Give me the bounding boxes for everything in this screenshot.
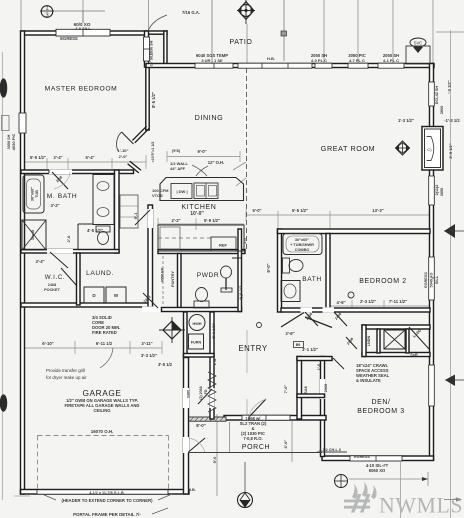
wall: front entry south: [224, 416, 326, 421]
svg-text:HWH: HWH: [192, 322, 201, 326]
north arrow: [240, 5, 252, 17]
weatherstrip zigzag on garage walls: [208, 372, 216, 412]
svg-text:3 UR - 1 SE: 3 UR - 1 SE: [201, 58, 223, 63]
wall: mbath east: [115, 170, 120, 253]
svg-text:36x48: 36x48: [31, 230, 35, 241]
wall: master SE diagonal lower: [128, 161, 141, 173]
door leaf: hall door at wic: [50, 252, 68, 268]
kitchen dim line y224: [158, 223, 244, 225]
dashed line: great room / kitchen boundary: [246, 68, 248, 252]
svg-text:- FD: - FD: [204, 389, 208, 396]
svg-text:7/16 G.A.: 7/16 G.A.: [182, 10, 200, 15]
door leaf: bath2: [305, 312, 318, 326]
svg-text:2′-2″: 2′-2″: [171, 218, 180, 223]
svg-text:DINING: DINING: [195, 113, 224, 122]
furn box: [189, 334, 204, 349]
svg-text:PWDR: PWDR: [197, 272, 220, 279]
svg-text:9′-0: 9′-0: [212, 456, 217, 464]
furnace closet south wall: [184, 354, 215, 358]
svg-text:(2) 2068: (2) 2068: [199, 386, 203, 399]
door leaf: master entry door on diagonal: [122, 132, 134, 144]
leader: portal frame note: [152, 508, 168, 514]
svg-text:=10′5″=1 1/2: =10′5″=1 1/2: [151, 142, 155, 163]
svg-text:10′-0″: 10′-0″: [190, 211, 204, 217]
bath2 toilet: [283, 258, 290, 273]
smoke detector bedroom2: [348, 292, 354, 298]
nwmls logo crossbars: [344, 500, 370, 503]
svg-text:W: W: [114, 293, 119, 298]
pwdr pedestal sink: [221, 266, 232, 278]
svg-text:Provide transfer grill: Provide transfer grill: [46, 368, 85, 373]
wall: garage east: [184, 358, 189, 495]
wall: closets south / den north: [362, 353, 430, 357]
svg-text:4-0 SILL: 4-0 SILL: [75, 26, 91, 31]
svg-text:3050: 3050: [440, 188, 444, 196]
svg-text:GREAT ROOM: GREAT ROOM: [321, 144, 375, 153]
window: 3050 PIC: [348, 63, 368, 68]
svg-text:3′-5 1/2: 3′-5 1/2: [158, 362, 173, 367]
svg-text:C): C): [427, 147, 432, 152]
svg-text:3′-3 1/2″: 3′-3 1/2″: [141, 353, 157, 358]
window: 2050 SH right: [378, 63, 404, 68]
leader half wall note: [192, 165, 207, 176]
door leaf: master bath door 2/68: [52, 172, 68, 189]
window: patio door 12ft: [238, 63, 312, 68]
svg-text:5′-8 1/2″: 5′-8 1/2″: [211, 323, 216, 338]
section marker garage: [163, 321, 181, 339]
corridor angled wall east: [305, 317, 332, 328]
top extension line x83: [82, 0, 84, 23]
window: den east: [429, 365, 435, 406]
door opening bath2: [301, 307, 313, 312]
svg-text:1′-10″: 1′-10″: [118, 148, 129, 153]
wall: main north (patio side): [146, 64, 434, 68]
kitchen island half wall: [160, 178, 244, 201]
window: 5040 XO egress bedroom2: [429, 257, 435, 300]
garage dim line y348: [21, 347, 162, 349]
svg-text:6060 XO: 6060 XO: [369, 468, 386, 473]
left margin line: [2, 52, 4, 500]
svg-text:5′-4″: 5′-4″: [85, 155, 94, 160]
door leaf: laundry door: [135, 210, 150, 225]
svg-text:6′-0″: 6′-0″: [283, 440, 288, 449]
svg-text:PANTRY: PANTRY: [170, 271, 175, 287]
svg-text:2′n″: 2′n″: [243, 236, 247, 243]
door leaf: entry-garage door: [198, 389, 212, 404]
svg-text:REF: REF: [219, 243, 228, 248]
kitchen REF box: [211, 237, 236, 251]
porch dim x292: [291, 421, 293, 462]
svg-text:DEN/: DEN/: [371, 399, 390, 406]
svg-text:2′-6″: 2′-6″: [285, 331, 294, 336]
svg-text:POCKET: POCKET: [44, 288, 61, 292]
bottom extension x400: [400, 462, 402, 518]
svg-text:44″ AFF: 44″ AFF: [170, 166, 186, 171]
top extension line x393: [392, 0, 394, 64]
window: 3050 east below fireplace: [429, 176, 435, 205]
small arrow right of watermark: [444, 499, 460, 501]
svg-text:& INSULATE: & INSULATE: [356, 378, 381, 383]
smoke detector hall: [257, 323, 262, 328]
half-wall leader marks near dashed line: [233, 162, 246, 170]
svg-text:16070 O.H.: 16070 O.H.: [91, 429, 113, 434]
leader: header note right: [158, 494, 172, 500]
porch edge line: [188, 452, 322, 454]
leader: header note left: [42, 494, 56, 500]
door leaf: hall lower: [333, 358, 344, 369]
wall: entry closet top: [297, 357, 332, 361]
crawl closet divider: [406, 329, 409, 353]
svg-text:4-1/2 CH-L 6: 4-1/2 CH-L 6: [319, 448, 341, 452]
top extension line x212 patio edge: [211, 0, 213, 64]
window: 6060 XO den south: [350, 456, 402, 461]
wall: mbath south: [21, 250, 119, 254]
hwh circle: [189, 315, 205, 331]
kitchen lower counter: [158, 225, 244, 251]
svg-text:7′-0″: 7′-0″: [283, 385, 288, 394]
wall: entry west: [210, 312, 214, 419]
svg-text:30″x60″: 30″x60″: [31, 187, 35, 201]
svg-text:LNDN: LNDN: [367, 335, 371, 346]
wall: house west (full height): [21, 31, 25, 494]
svg-text:6′-10″: 6′-10″: [42, 341, 53, 346]
svg-text:4-1/2 x 11-7/8 G.L.B.: 4-1/2 x 11-7/8 G.L.B.: [89, 491, 125, 495]
wall: wic-laundry divider: [77, 253, 81, 305]
svg-text:2(11)2: 2(11)2: [435, 185, 439, 196]
section marker great room: [396, 141, 410, 155]
svg-text:SA8: SA8: [304, 386, 308, 393]
garage door opening 16070: [37, 490, 168, 494]
door leaf: den entry: [346, 337, 357, 349]
furnace closet west wall: [184, 312, 188, 357]
kitchen range box: [160, 227, 180, 249]
svg-text:5′-9 1/2″: 5′-9 1/2″: [30, 155, 46, 160]
right top line y32: [436, 31, 464, 33]
svg-text:5′-5 1/2″: 5′-5 1/2″: [292, 208, 308, 213]
pantry shelf dashes: [162, 256, 164, 306]
callout circle bottom right: [335, 475, 348, 488]
window flag triangle right (bedroom2): [444, 224, 455, 238]
garage depth dim x217: [216, 414, 218, 496]
svg-text:H.B.: H.B.: [267, 56, 275, 61]
window flag triangle right (den): [445, 375, 455, 387]
svg-text:CEILING: CEILING: [94, 408, 111, 413]
wall: master bedroom north: [21, 31, 146, 35]
section marker porch bottom: [238, 493, 253, 508]
kitchen DW box: [171, 184, 192, 199]
svg-text:3′-1 1/2″: 3′-1 1/2″: [302, 347, 318, 352]
svg-text:EGRESS: EGRESS: [60, 36, 78, 41]
wall: pwdr south: [162, 308, 242, 312]
svg-text:VTOS: VTOS: [152, 193, 163, 198]
leader transfer grill note: [100, 348, 113, 368]
bottom left small lines: [14, 495, 30, 497]
scan blob left lower: [0, 395, 7, 412]
top extension line x358: [357, 0, 359, 64]
svg-text:4058 BP: 4058 BP: [161, 267, 165, 282]
window: 4030 PIC, west wall: [19, 113, 26, 133]
B9 box: [294, 342, 304, 348]
door opening: den door 2068: [320, 379, 325, 399]
svg-text:2′-4″: 2′-4″: [53, 155, 62, 160]
svg-text:13′-3″: 13′-3″: [372, 208, 383, 213]
svg-text:H.B.: H.B.: [188, 488, 196, 492]
svg-text:PATIO: PATIO: [230, 39, 253, 46]
callout leader y11: [54, 10, 105, 12]
svg-text:COMBO: COMBO: [295, 248, 310, 252]
svg-text:4′-5 1/2″: 4′-5 1/2″: [87, 228, 103, 233]
leader 12in OH: [196, 166, 208, 176]
wall: laundry east / kitchen west: [148, 205, 153, 307]
svg-text:TUB: TUB: [35, 190, 39, 198]
wall: bath2 + bedroom2 south: [281, 308, 430, 312]
wall: bath2/bedroom2 divider: [326, 234, 330, 309]
nwmls logo bird 3: [371, 485, 377, 499]
door leaf: front entry door: [249, 399, 266, 417]
master dim line y162: [21, 161, 146, 163]
wall: jog at master NE corner: [148, 0, 150, 30]
svg-text:5′-9 1/2″: 5′-9 1/2″: [204, 218, 220, 223]
svg-text:KITCHEN: KITCHEN: [182, 204, 217, 211]
wall: corridor west / pwdr east: [238, 229, 242, 312]
mbath toilet: [96, 226, 110, 232]
svg-text:4.7 PL C: 4.7 PL C: [349, 58, 365, 63]
svg-text:FIRE RATED: FIRE RATED: [92, 330, 117, 335]
svg-text:EGRESS: EGRESS: [424, 272, 428, 288]
svg-text:1′-6″: 1′-6″: [212, 357, 217, 366]
nwmls logo bird 2: [362, 482, 368, 497]
dim arrow bottom right: [422, 477, 428, 481]
svg-text:4(-)1 1/2: 4(-)1 1/2: [239, 286, 243, 300]
svg-text:B9: B9: [296, 343, 301, 347]
door leaf: garage man door: [189, 438, 206, 452]
mbath toilet partition: [77, 224, 79, 250]
svg-text:SxR: SxR: [410, 353, 418, 357]
window label box far left: [2, 116, 10, 131]
svg-text:LAUND.: LAUND.: [86, 270, 114, 277]
svg-text:6′-11 1/2: 6′-11 1/2: [96, 341, 113, 346]
kitchen sink double: [194, 183, 218, 199]
svg-text:ENTRY: ENTRY: [238, 344, 267, 353]
svg-text:| DW |: | DW |: [176, 189, 187, 194]
wall: entry closet east: [297, 357, 302, 420]
windows: 3036/2046 SH on jog wall: [144, 37, 150, 61]
svg-text:EGRESS: EGRESS: [354, 455, 370, 459]
wall: wic/laundry south (garage north): [21, 303, 151, 307]
laundry dryer box: [84, 287, 104, 303]
mbath tub 30x60: [23, 175, 44, 213]
window: 6050 XO egress, master north: [56, 29, 110, 36]
svg-text:SBR: SBR: [187, 390, 191, 398]
svg-text:8′-5 1/2″: 8′-5 1/2″: [151, 92, 156, 108]
hose bib rect on patio wall: [281, 31, 287, 36]
entry extension x247: [246, 330, 248, 373]
wall: master SE diagonal upper (door wall): [132, 126, 149, 143]
svg-text:-10′ SILL: -10′ SILL: [150, 52, 154, 68]
right margin line x450: [450, 30, 452, 518]
svg-text:(HEADER TO EXTEND CORNER TO CO: (HEADER TO EXTEND CORNER TO CORNER): [61, 498, 153, 503]
svg-text:3050 SH: 3050 SH: [7, 134, 11, 149]
bath2 tub/shower combo: [283, 234, 322, 255]
top extension line x433: [432, 0, 434, 63]
window: 2050 SH: [315, 63, 332, 68]
svg-text:2′-3 1/2″: 2′-3 1/2″: [360, 299, 376, 304]
window: 6040 SGS slider: [195, 63, 233, 68]
wic door leaf: [61, 268, 77, 286]
pwdr toilet: [194, 301, 209, 308]
wall: linen/crawl closets north: [362, 325, 430, 329]
svg-text:8′-0″: 8′-0″: [196, 423, 206, 428]
wall: entry closet bottom: [297, 394, 325, 398]
extension line under north arrow: [246, 24, 248, 64]
linen divider: [377, 329, 380, 353]
door opening pwdr: [142, 307, 160, 313]
svg-text:W.I.C.: W.I.C.: [45, 274, 65, 281]
svg-text:1′-3 1/2″: 1′-3 1/2″: [398, 118, 414, 123]
wall: hatched front wall west segment: [188, 417, 226, 421]
laundry linen shelves: [120, 195, 138, 228]
door opening: laundry door: [148, 209, 154, 228]
corridor angled wall west: [281, 313, 304, 328]
door leaf: LADD diagonal: [409, 327, 429, 349]
svg-text:M. BATH: M. BATH: [47, 193, 77, 200]
svg-text:3′-11″: 3′-11″: [141, 341, 152, 346]
svg-text:BATH: BATH: [302, 276, 322, 283]
wall: bath2 west: [278, 229, 282, 312]
svg-text:2068: 2068: [324, 384, 328, 392]
svg-text:NWMLS: NWMLS: [379, 494, 463, 518]
fireplace bump-out: [422, 127, 443, 171]
wall: house east: [430, 64, 434, 461]
svg-text:-1′-3 1/2: -1′-3 1/2: [444, 118, 460, 123]
door opening: garage man door to porch: [183, 437, 189, 453]
door opening in mbath south (hall): [47, 249, 73, 254]
door leaf: bedroom2: [334, 312, 347, 326]
svg-text:DCL42 SH: DCL42 SH: [435, 86, 439, 105]
patio right edge line x284: [283, 0, 285, 61]
mbath double vanity: [93, 175, 114, 225]
svg-text:BEDROOM 3: BEDROOM 3: [357, 408, 404, 415]
mbath shower 36x48: [22, 220, 46, 250]
scan blob left upper: [0, 79, 7, 98]
svg-text:2′-6: 2′-6: [66, 235, 71, 243]
svg-text:12″ O.H.: 12″ O.H.: [208, 160, 224, 165]
svg-text:FURN: FURN: [191, 341, 202, 345]
wall: master bedroom east: [146, 67, 149, 130]
svg-text:BEDROOM 2: BEDROOM 2: [359, 278, 406, 285]
svg-text:30″x60″: 30″x60″: [295, 238, 309, 242]
closet partition on corridor: [232, 257, 241, 259]
top extension line x20: [20, 0, 22, 31]
svg-text:for dryer make up air: for dryer make up air: [46, 375, 87, 380]
wall: master south / mbath north: [21, 170, 134, 174]
svg-text:9′-0″: 9′-0″: [197, 149, 206, 154]
crawl access hatch: [384, 330, 405, 349]
door opening bedroom2: [323, 307, 335, 312]
door opening: entry-garage: [210, 388, 215, 408]
svc meter symbol: [410, 38, 426, 47]
svg-text:GARAGE: GARAGE: [82, 388, 121, 398]
wall: kitchen south / pwdr north: [158, 250, 245, 254]
leader 7/16 GA: [149, 15, 168, 30]
svg-text:1′-6: 1′-6: [317, 364, 321, 370]
svg-text:2468: 2468: [48, 283, 56, 287]
callout bubble detail 1 top left: [41, 6, 53, 18]
den bottom dim y479: [349, 478, 428, 480]
door leaf: pwdr door: [143, 293, 158, 308]
svg-text:MASTER BEDROOM: MASTER BEDROOM: [45, 86, 118, 93]
svg-text:4-0 PL C: 4-0 PL C: [311, 58, 327, 63]
wall: garage south: [21, 490, 190, 495]
great room dim line y215: [246, 214, 430, 216]
svg-text:4-1 PL C: 4-1 PL C: [383, 58, 399, 63]
svg-text:3060: 3060: [440, 106, 444, 114]
wall: bath2 + bedroom2 north: [278, 229, 431, 234]
svg-text:SILL: SILL: [435, 275, 439, 284]
svg-text:(9′8): (9′8): [172, 148, 181, 153]
svg-text:4′-6″: 4′-6″: [336, 300, 345, 305]
front door + sidelights: [242, 415, 290, 420]
svg-text:5040 XO: 5040 XO: [430, 272, 434, 287]
dining dim line y157: [167, 156, 240, 158]
wall: den west: [321, 357, 325, 457]
svg-text:9′-1: 9′-1: [133, 212, 138, 220]
door opening: master bath door: [49, 170, 72, 175]
bath2 vanity: [281, 281, 300, 302]
svg-text:PORTAL FRAME PER DETAIL 7/-: PORTAL FRAME PER DETAIL 7/-: [73, 512, 141, 517]
svg-text:3′-2″: 3′-2″: [50, 203, 59, 208]
svg-text:+ TUB/SHWR: + TUB/SHWR: [290, 243, 314, 247]
svg-text:2′-9 1/2″: 2′-9 1/2″: [448, 143, 453, 158]
bedroom2 dim line y306: [330, 305, 430, 307]
svg-text:5′-0″: 5′-0″: [252, 208, 261, 213]
linen closet west wall: [362, 325, 366, 357]
wall: den south: [322, 456, 434, 461]
svg-text:6′-0″: 6′-0″: [266, 263, 271, 272]
svg-text:7-0,8 R.O.: 7-0,8 R.O.: [243, 436, 262, 441]
porch east thin line: [229, 422, 231, 452]
svg-text:4030 PIC: 4030 PIC: [11, 134, 16, 151]
great room cabinet top right: [406, 46, 430, 64]
svg-text:PORCH: PORCH: [242, 444, 270, 451]
door opening: garage to entry SBR: [183, 388, 189, 408]
laundry washer box: [106, 287, 126, 303]
svg-text:2′-0″: 2′-0″: [119, 154, 128, 159]
svg-text:3′-4″: 3′-4″: [35, 259, 44, 264]
garage door dashed outline: [38, 435, 169, 437]
porch/den step line: [317, 451, 347, 453]
wall: pantry east: [178, 254, 182, 308]
svg-text:SVC: SVC: [414, 41, 423, 46]
top extension line x324: [323, 0, 325, 64]
window: DCL42 SH east wall: [429, 82, 435, 106]
nwmls logo bird 1: [352, 484, 358, 499]
svg-text:7′-11 1/2″: 7′-11 1/2″: [389, 299, 407, 304]
svg-text:′-0 1/2″: ′-0 1/2″: [447, 80, 452, 93]
